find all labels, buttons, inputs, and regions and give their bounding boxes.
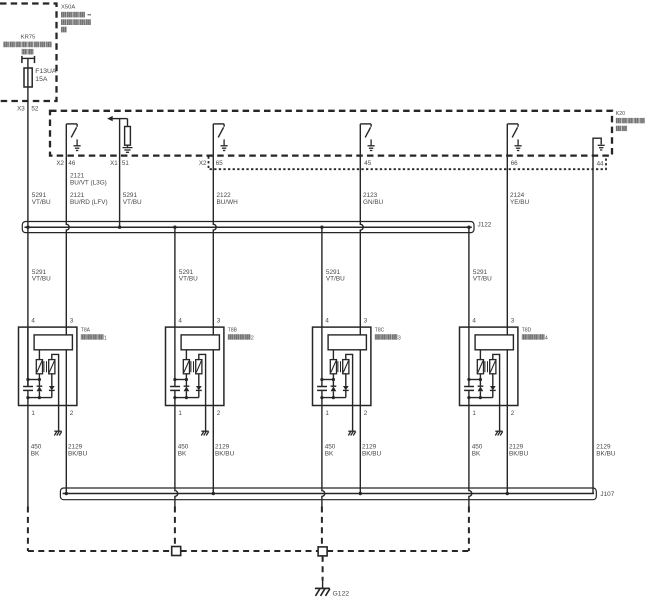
wire 2129: coil 2 pin 2 to J107 [212,406,214,494]
wire 450 BK: coil 2 pin 1 down [175,406,178,507]
svg-text:15A: 15A [35,76,48,83]
internal ground at pin 51 [123,145,133,152]
svg-text:T8C: T8C [375,327,385,333]
coil 2 internal wires [175,327,213,405]
wire 5291: J122 to coil 3 pin 4 [321,227,323,327]
svg-text:J122: J122 [478,222,492,229]
svg-text:4: 4 [31,318,35,325]
internal ground at pin 45 driver [368,139,375,150]
svg-text:J107: J107 [600,491,614,498]
coil 4 internal wires [469,327,507,405]
wire 5291: J122 to coil 2 pin 4 [174,227,176,327]
label K20 engine control module [616,111,645,131]
J107 junction dots [65,492,509,495]
coil 1 diode (secondary side) [49,374,55,398]
ignition coil T8B box [166,327,224,405]
K20 pin 46 low-side driver switch [66,124,77,156]
svg-text:1: 1 [104,335,107,341]
label T8A 点火线圈1 [81,327,107,341]
coil 1 internal wires [28,327,66,405]
svg-text:3: 3 [511,318,515,325]
wire label 5291 VT/BU (coil 3 feed) [326,269,345,283]
wire 450 BK: coil 4 pin 1 down [469,406,472,507]
wire label 2124 YE/BU [510,192,530,206]
svg-text:BK: BK [178,450,187,457]
pin labels row under K20 [56,160,604,167]
svg-text:BK: BK [472,450,481,457]
svg-text:2: 2 [70,410,74,417]
svg-text:YE/BU: YE/BU [510,199,530,206]
wire label 5291 VT/BU (coil 2 feed) [179,269,198,283]
svg-text:BK/BU: BK/BU [509,450,529,457]
K20 pin 51 voltage sense: arrow, resistor, ground [107,116,127,127]
svg-text:45: 45 [364,160,371,167]
svg-text:65: 65 [216,160,223,167]
label 450 BK (coil 2) [178,444,189,458]
coil 1 secondary winding [49,360,55,374]
dashed drop to G122 [322,556,324,588]
svg-text:VT/BU: VT/BU [123,199,142,206]
coil 1 diode (primary side) [37,374,43,398]
coil 4 secondary winding [490,360,496,374]
svg-text:KR75: KR75 [21,35,36,41]
svg-text:X3: X3 [17,105,25,112]
wire label 2121 BU/RD (LFV) [70,192,108,206]
coil 2 driver module block [181,335,219,350]
coil 4 diode (primary side) [478,374,484,398]
fuse box X50A (dashed enclosure) [0,4,57,102]
svg-text:3: 3 [364,318,368,325]
coil 4 core [485,361,488,372]
svg-text:T8A: T8A [81,327,91,333]
svg-text:52: 52 [31,105,39,112]
coil 4 capacitor [464,387,474,391]
svg-text:4: 4 [325,318,329,325]
label 2129 BK/BU (pin 44 wire) [596,444,616,458]
svg-text:51: 51 [122,160,129,167]
coil 2 core [191,361,194,372]
coil 2 diode (secondary side) [196,374,202,398]
K20 pin 45 low-side driver switch [360,124,371,156]
coil 2 diode (primary side) [184,374,190,398]
label T8B 点火线圈2 [228,327,254,341]
wire 2129: K20 pin 44 to J107 [592,156,594,494]
spark gap chassis ground (coil 1) [54,431,61,435]
svg-text:4: 4 [178,318,182,325]
spark gap chassis ground (coil 3) [348,431,355,435]
coil 1 primary winding [36,360,42,374]
wire label 2122 BU/WH [217,192,239,206]
coil 3 diode (secondary side) [343,374,349,398]
internal ground at pin 66 driver [515,139,522,150]
coil 2 pin numbers 4 3 1 2 [178,318,220,418]
wire 2129: coil 3 pin 2 to J107 [359,406,361,494]
dashed ground wire: coil3 450 BK drop [321,507,323,547]
label 450 BK (coil 1) [31,444,42,458]
svg-text:X2: X2 [56,160,64,167]
resistor inside K20 at pin 51 [125,127,131,146]
coil 3 pin numbers 4 3 1 2 [325,318,367,418]
splice pack J122 [22,222,474,233]
svg-text:4: 4 [545,335,548,341]
coil 3 driver module block [328,335,366,350]
ECM K20 (dashed box) [50,111,612,156]
svg-text:F13UA: F13UA [35,68,57,75]
coil 3 junction dots [320,378,335,399]
svg-text:4: 4 [472,318,476,325]
spark gap chassis ground (coil 4) [495,431,502,435]
wire label 5291 VT/BU (coil 1 feed) [32,269,51,283]
label 450 BK (coil 3) [325,444,336,458]
wire 2129: coil 1 pin 2 to J107 [65,406,67,494]
svg-text:VT/BU: VT/BU [179,276,198,283]
dashed ground wire: coil4 450 BK drop [468,507,470,552]
relay KR75 contact [22,56,35,63]
coil 1 junction dots [26,378,41,399]
svg-text:3: 3 [398,335,401,341]
label X50A fuse box - under hood [61,5,91,33]
wire 2123: K20 pin to coil 3 pin 3 (hops J122) [360,156,363,328]
coil 1 secondary HT lead to spark gap [52,354,59,431]
svg-text:VT/BU: VT/BU [32,199,51,206]
svg-text:BK/BU: BK/BU [215,450,235,457]
internal ground at pin 65 driver [221,139,228,150]
coil 3 diode (primary side) [331,374,337,398]
dashed ground wire: coil2 450 BK drop [174,507,176,547]
label T8C 点火线圈3 [375,327,401,341]
coil 3 secondary winding [343,360,349,374]
svg-text:1: 1 [178,410,182,417]
svg-text:X1: X1 [110,160,118,167]
svg-text:2: 2 [251,335,254,341]
svg-text:BK: BK [325,450,334,457]
svg-text:VT/BU: VT/BU [473,276,492,283]
coil 2 primary winding [183,360,189,374]
svg-text:1: 1 [472,410,476,417]
splice pack J107 [60,488,596,500]
svg-text:3: 3 [70,318,74,325]
wire label 2121 BU/VT (L3G) [70,173,107,187]
wire 5291: K20 pin 51 to J122 [119,119,121,228]
label J107 [600,491,614,498]
coil 4 driver module block [475,335,513,350]
K20 pin 65 low-side driver switch [213,124,224,156]
label 450 BK (coil 4) [472,444,483,458]
wire 5291: J122 to coil 4 pin 4 [468,227,470,327]
svg-text:BK/BU: BK/BU [596,450,616,457]
coil 3 internal wires [322,327,360,405]
wire label 5291 VT/BU (pin 51) [123,192,142,206]
spark gap chassis ground (coil 2) [201,431,208,435]
svg-text:44: 44 [597,160,604,167]
label 2129 BK/BU (coil 3) [362,444,382,458]
svg-text:1: 1 [325,410,329,417]
label T8D 点火线圈4 [522,327,548,341]
coil 3 core [338,361,341,372]
inline connector (G122 node) [318,547,327,556]
svg-text:BK: BK [31,450,40,457]
fuse F13UA 15A [24,68,32,87]
internal ground at pin 46 driver [74,139,81,150]
dashed ground wire: coil1 450 BK drop [27,507,29,552]
coil 2 secondary HT lead to spark gap [199,354,206,431]
coil 1 core [44,361,47,372]
label J122 [478,222,492,229]
coil 1 pin numbers 4 3 1 2 [31,318,73,418]
coil 3 primary winding [330,360,336,374]
wire label 5291 VT/BU (fuse output) [32,192,51,206]
coil 4 primary winding [477,360,483,374]
svg-text:66: 66 [511,160,518,167]
coil 1 driver module block [34,335,72,350]
wire 2122: K20 pin to coil 2 pin 3 (hops J122) [213,156,216,328]
svg-text:BU/WH: BU/WH [217,199,239,206]
label 2129 BK/BU (coil 2) [215,444,235,458]
ignition coil T8C box [313,327,371,405]
svg-text:G122: G122 [333,590,350,597]
wire label 2123 GN/BU [363,192,384,206]
dashed ground rail [28,550,469,552]
svg-text:46: 46 [68,160,75,167]
coil 2 secondary winding [196,360,202,374]
connector label X3 | 52 [17,105,39,112]
connector X2 region (dotted sub-box) [209,157,607,170]
ignition coil T8D box [460,327,518,405]
label F13UA 15A [35,68,57,83]
label G122 [333,590,350,597]
J122 junction dots [26,226,470,229]
svg-text:T8D: T8D [522,327,532,333]
svg-text:BK/BU: BK/BU [362,450,382,457]
label relay KR75 engine control ignition relay [3,35,51,55]
wire: relay through fuse down to J122 and coil1 pin4 [27,59,29,387]
svg-text:X50A: X50A [61,5,75,11]
coil 3 secondary HT lead to spark gap [346,354,353,431]
svg-text:1: 1 [31,410,35,417]
svg-text:VT/BU: VT/BU [326,276,345,283]
wire 450 BK: coil 3 pin 1 down [322,406,325,507]
coil 2 junction dots [173,378,188,399]
K20 pin 66 low-side driver switch [507,124,518,156]
coil 4 diode (secondary side) [490,374,496,398]
svg-text:T8B: T8B [228,327,238,333]
ground G122 [315,588,330,596]
wire 450 BK: coil 1 pin 1 down [27,406,29,507]
wire 2121: K20 pin to coil 1 pin 3 (hops J122) [66,156,69,328]
svg-text:BK/BU: BK/BU [68,450,88,457]
coil 4 junction dots [467,378,482,399]
ignition coil T8A box [19,327,77,405]
svg-text:X2: X2 [199,160,207,167]
wire 2124: K20 pin to coil 4 pin 3 (hops J122) [506,156,508,328]
svg-text:K20: K20 [616,111,625,117]
svg-text:3: 3 [217,318,221,325]
svg-text:GN/BU: GN/BU [363,199,384,206]
svg-text:2: 2 [217,410,221,417]
coil 1 capacitor [23,387,33,391]
coil 3 capacitor [317,387,327,391]
inline connector (coil2 ground path) [172,547,181,556]
coil 4 pin numbers 4 3 1 2 [472,318,514,418]
wire label 5291 VT/BU (coil 4 feed) [473,269,492,283]
coil 2 capacitor [170,387,180,391]
coil 4 secondary HT lead to spark gap [493,354,500,431]
svg-text:2: 2 [511,410,515,417]
svg-text:2: 2 [364,410,368,417]
label 2129 BK/BU (coil 4) [509,444,529,458]
svg-text:BU/VT (L3G): BU/VT (L3G) [70,179,107,186]
K20 pin 44 internal ground tie [593,138,605,155]
wire 2129: coil 4 pin 2 to J107 [506,406,508,494]
svg-text:BU/RD (LFV): BU/RD (LFV) [70,199,108,206]
svg-text:VT/BU: VT/BU [32,276,51,283]
label 2129 BK/BU (coil 1) [68,444,88,458]
